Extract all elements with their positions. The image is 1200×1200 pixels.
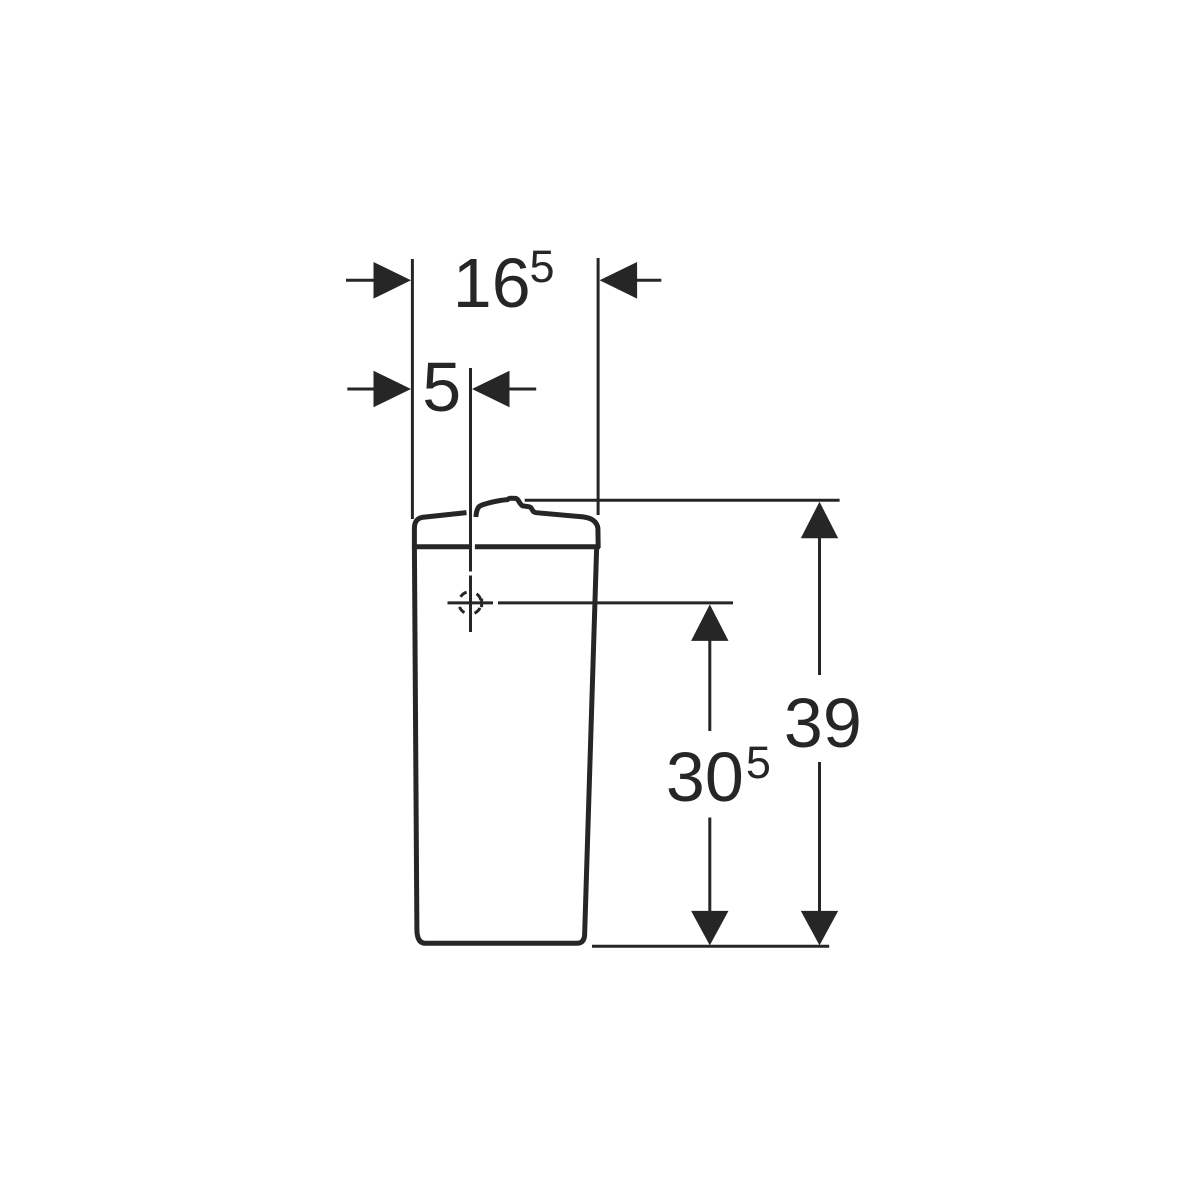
svg-text:5: 5 — [530, 241, 555, 292]
svg-text:5: 5 — [422, 348, 461, 426]
svg-text:5: 5 — [746, 737, 771, 788]
svg-text:30: 30 — [666, 738, 744, 816]
svg-text:16: 16 — [453, 244, 531, 322]
svg-text:39: 39 — [784, 684, 862, 762]
